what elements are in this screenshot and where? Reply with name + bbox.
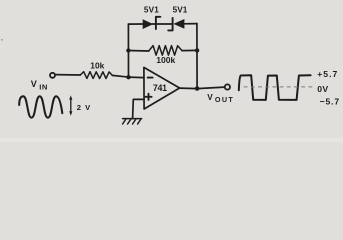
- wire: R1 to op-amp inverting input: [112, 75, 144, 77]
- junction node: 100k left: [126, 48, 130, 52]
- junction node: output / feedback: [195, 86, 200, 91]
- svg-text:V: V: [207, 93, 213, 102]
- wire: input terminal to R1: [56, 74, 81, 76]
- op-amp U1 741: [144, 67, 180, 109]
- wire: top branch left segment: [128, 23, 143, 25]
- svg-text:741: 741: [153, 83, 167, 93]
- svg-text:2 V: 2 V: [77, 103, 91, 112]
- wire: non-inverting input to ground: [133, 99, 144, 118]
- junction node: 100k right: [195, 48, 199, 52]
- resistor R2 100k: [149, 46, 182, 56]
- op-amp plus input symbol: [145, 94, 151, 100]
- wire: op-amp output: [180, 87, 225, 89]
- resistor R1 10k: [80, 72, 112, 79]
- wire: feedback left vertical: [127, 24, 129, 77]
- wire: 100k branch right: [182, 49, 197, 51]
- svg-text:0V: 0V: [317, 84, 328, 94]
- op-amp minus input symbol: [148, 77, 153, 79]
- svg-text:5V1: 5V1: [144, 6, 159, 15]
- svg-text:5V1: 5V1: [173, 6, 188, 15]
- junction node: input / feedback: [126, 75, 130, 79]
- svg-text:10k: 10k: [90, 61, 104, 71]
- svg-text:−5.7: −5.7: [320, 96, 340, 106]
- wire: 100k branch left: [128, 50, 148, 53]
- zener diode D1 (5V1, left): [143, 17, 161, 29]
- wire: feedback right vertical: [196, 24, 198, 89]
- svg-text:IN: IN: [39, 83, 48, 92]
- input sine waveform: [19, 96, 62, 117]
- paper background: [0, 0, 343, 142]
- ground: [123, 119, 142, 124]
- 2V amplitude arrow: [69, 95, 72, 115]
- 0V dashed reference line: [244, 86, 314, 88]
- wire: between D1 and D2: [152, 23, 173, 25]
- scan speck: [1, 39, 3, 41]
- wire: top branch right segment: [184, 23, 197, 25]
- output square waveform: [239, 75, 311, 100]
- svg-text:100k: 100k: [156, 55, 175, 65]
- svg-text:V: V: [31, 79, 37, 89]
- zener diode D2 (5V1, right): [168, 18, 184, 30]
- svg-text:+5.7: +5.7: [317, 69, 338, 79]
- svg-text:OUT: OUT: [215, 95, 234, 104]
- output terminal (VOUT): [225, 84, 230, 89]
- input terminal (VIN): [50, 73, 55, 78]
